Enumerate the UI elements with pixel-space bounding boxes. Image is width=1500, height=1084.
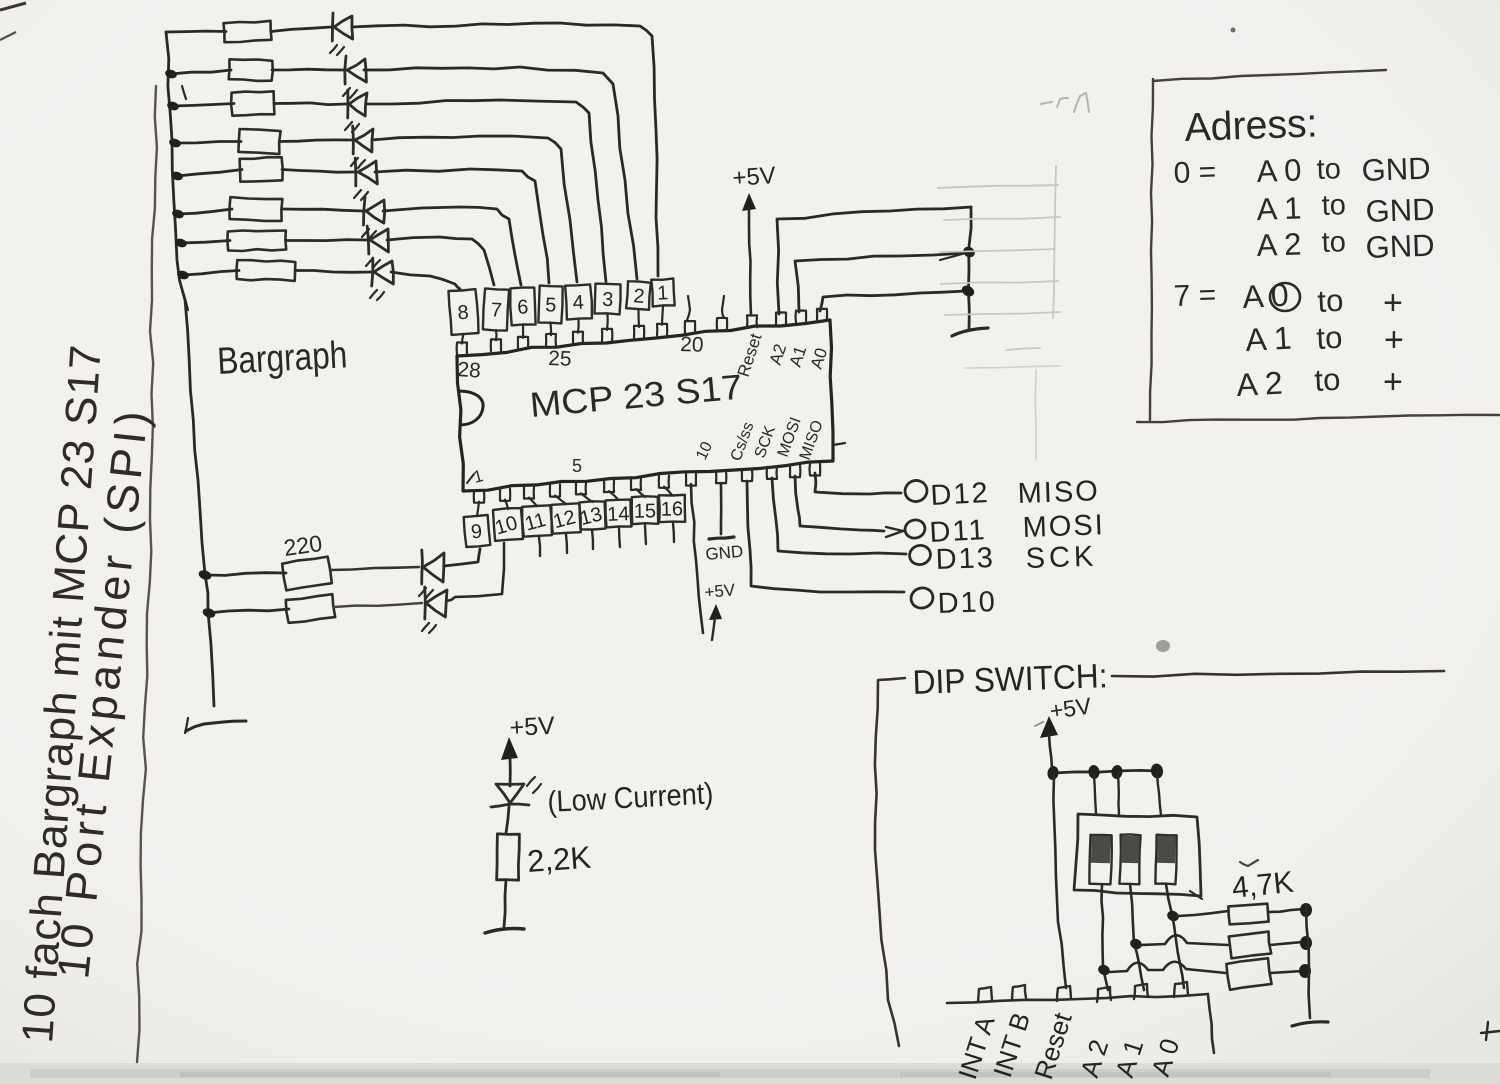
svg-text:4,7K: 4,7K bbox=[1230, 866, 1295, 905]
wire bus to resistor R8 bbox=[183, 271, 239, 276]
svg-text:to: to bbox=[1316, 153, 1341, 186]
IC U1 bottom pin stub 3 bbox=[524, 487, 534, 499]
wire LED D6 to pin box 6 bbox=[383, 207, 521, 285]
svg-text:+: + bbox=[1383, 284, 1403, 322]
wire MOSI to D11 bbox=[795, 476, 884, 531]
tick on bus below node 8 bbox=[184, 295, 188, 310]
header pin stub INT B bbox=[1012, 985, 1026, 1000]
resistor 2.2K bbox=[497, 834, 520, 880]
IC U1 bottom pin stub 2 bbox=[500, 489, 510, 501]
svg-text:+: + bbox=[1383, 363, 1403, 401]
connector circle D12 bbox=[903, 478, 930, 504]
header pin stub A2 bbox=[1097, 987, 1111, 1002]
svg-text:to: to bbox=[1317, 283, 1345, 319]
pin box 5 bbox=[538, 286, 562, 324]
wire bus to resistor R9 bbox=[205, 573, 286, 576]
resistor R9 (220) bbox=[282, 557, 332, 591]
header strip right edge bbox=[1208, 995, 1214, 1053]
svg-text:GND: GND bbox=[1361, 151, 1431, 188]
svg-text:A 1: A 1 bbox=[1244, 320, 1292, 358]
pin box 14 bbox=[606, 500, 632, 528]
svg-text:GND: GND bbox=[705, 542, 744, 564]
junction node on bus row 7 bbox=[174, 237, 188, 248]
wire pin box 4 to chip bbox=[577, 319, 580, 333]
pin box 3 bbox=[595, 284, 621, 315]
svg-text:SCK: SCK bbox=[1025, 541, 1098, 575]
connector circle D11 bbox=[903, 518, 927, 541]
ground symbol right of chip bbox=[952, 328, 988, 336]
IC U1 top pin stub 1 bbox=[457, 343, 467, 355]
svg-text:D11: D11 bbox=[929, 514, 988, 549]
wire bus to resistor R1 bbox=[166, 30, 226, 34]
DIP switch S1 body bbox=[1074, 814, 1201, 896]
wire pin box 7 to chip bbox=[495, 330, 498, 340]
wire LED D4 to pin box 4 bbox=[372, 136, 577, 282]
junction node on bus row 5 bbox=[170, 170, 184, 181]
wire chip to pin box 12 bbox=[555, 496, 566, 505]
LED D5 bbox=[354, 158, 357, 186]
IC U1 top pin stub 11 bbox=[747, 315, 757, 327]
wire MISO to D12 bbox=[815, 473, 901, 494]
stub wire below pin box 16 bbox=[673, 523, 674, 542]
stub wire below pin box 14 bbox=[619, 528, 620, 547]
wire LED D7 to pin box 7 bbox=[387, 237, 494, 285]
IC U1 MCP23S17 body outline bbox=[457, 320, 833, 491]
pigtail wire above stub x690 bbox=[687, 296, 690, 320]
pin box 8 bbox=[449, 289, 479, 335]
svg-text:D10: D10 bbox=[937, 586, 997, 620]
small dot top right bbox=[1231, 28, 1236, 33]
resistor R5 bbox=[240, 157, 283, 182]
DIP switch slot 1 bbox=[1089, 835, 1111, 885]
wire bus to resistor R5 bbox=[177, 170, 242, 177]
junction node on bus row 3 bbox=[166, 100, 180, 111]
wire CS to D10 bbox=[747, 481, 904, 592]
junction node dip bus 4 bbox=[1150, 763, 1164, 780]
LED D3 bbox=[346, 90, 349, 118]
wire LED to resistor 2.2K bbox=[506, 806, 509, 833]
bargraph common bus wire bbox=[166, 32, 214, 706]
pullup row2 wire left bbox=[1141, 935, 1228, 945]
svg-text:2,2K: 2,2K bbox=[526, 840, 592, 879]
pin box 15 bbox=[632, 496, 658, 524]
svg-text:7: 7 bbox=[490, 299, 502, 322]
wire LED D8 to pin box 8 bbox=[391, 272, 460, 289]
wire chip to pin box 16 bbox=[664, 487, 672, 495]
pigtail wire above stub x722 bbox=[722, 296, 724, 318]
resistor R7 bbox=[227, 231, 286, 252]
power arrow +5V dip bbox=[1040, 716, 1058, 738]
svg-text:0 =: 0 = bbox=[1173, 156, 1217, 190]
svg-text:14: 14 bbox=[607, 503, 630, 526]
LED D10 bbox=[423, 587, 426, 619]
gnd bus vertical right of chip bbox=[968, 207, 971, 330]
pin box 9 bbox=[464, 515, 491, 547]
IC U1 bottom pin stub 10 bbox=[716, 471, 726, 483]
wire resistor R4 to LED D4 bbox=[280, 140, 352, 142]
wire pin17 to +5V bbox=[691, 484, 703, 633]
pin box 1 bbox=[651, 278, 674, 306]
junction node row2-switch2 bbox=[1128, 937, 1143, 951]
pin box 4 bbox=[565, 284, 592, 319]
svg-text:to: to bbox=[1316, 320, 1344, 356]
pullup row1 wire right bbox=[1268, 909, 1304, 912]
wire bus to resistor R6 bbox=[178, 209, 232, 214]
LED D9 bbox=[420, 550, 423, 584]
pin box 2 bbox=[626, 281, 651, 310]
junction node dip bus 2 bbox=[1088, 764, 1101, 779]
svg-text:MISO: MISO bbox=[1017, 475, 1100, 510]
power arrow +5V low current bbox=[501, 737, 518, 760]
IC U1 top pin stub 8 bbox=[657, 324, 667, 336]
resistor R10 (220) bbox=[286, 594, 335, 623]
line right of DIP SWITCH label bbox=[1112, 671, 1444, 677]
LED D2 bbox=[345, 56, 346, 84]
power arrow +5V below chip bbox=[709, 604, 722, 620]
svg-text:A 2: A 2 bbox=[1235, 365, 1283, 403]
stub wire below pin box 12 bbox=[566, 534, 567, 553]
svg-text:MOSI: MOSI bbox=[1022, 509, 1105, 544]
svg-text:5: 5 bbox=[572, 456, 582, 476]
pullup row1 wire left bbox=[1178, 911, 1228, 916]
junction node row1-switch3 bbox=[1165, 909, 1180, 923]
wire bus to resistor R7 bbox=[181, 241, 230, 244]
svg-text:20: 20 bbox=[680, 333, 704, 357]
IC U1 bottom pin stub 7 bbox=[631, 478, 641, 490]
wire resistor R5 to LED D5 bbox=[282, 170, 355, 173]
svg-text:to: to bbox=[1321, 226, 1346, 259]
svg-text:1: 1 bbox=[657, 282, 669, 305]
wire chip to pin box 11 bbox=[529, 498, 537, 506]
resistor R4 bbox=[238, 129, 280, 154]
svg-text:220: 220 bbox=[282, 530, 324, 561]
stub wire below pin box 11 bbox=[539, 537, 540, 556]
stub wire below pin box 15 bbox=[645, 525, 646, 544]
junction node row3-bus bbox=[1299, 964, 1311, 978]
svg-text:Adress:: Adress: bbox=[1184, 101, 1318, 150]
wire pin GND down bbox=[720, 484, 723, 534]
svg-text:25: 25 bbox=[548, 347, 572, 371]
wire bus to resistor R10 bbox=[208, 609, 289, 613]
IC U1 top pin stub 4 bbox=[546, 334, 556, 347]
IC U1 bottom pin stub 6 bbox=[604, 480, 614, 492]
svg-text:5: 5 bbox=[545, 294, 557, 316]
mark at right edge bottom bbox=[1486, 1022, 1488, 1040]
ghost +5V marks top right bbox=[1041, 102, 1052, 104]
svg-text:28: 28 bbox=[457, 358, 482, 383]
wire resistor R2 to LED D2 bbox=[272, 68, 344, 72]
svg-text:A 2: A 2 bbox=[1256, 226, 1302, 263]
wire resistor R1 to LED D1 bbox=[271, 27, 331, 32]
wire dip bus to switch pin 1 bbox=[1094, 774, 1096, 813]
junction node bus row 10 bbox=[201, 607, 216, 620]
IC U1 top pin stub 2 bbox=[491, 339, 501, 351]
svg-text:8: 8 bbox=[457, 302, 470, 325]
wire dip bus to switch pin 3 bbox=[1157, 773, 1161, 815]
svg-text:to: to bbox=[1321, 189, 1346, 222]
ground symbol dip bbox=[1292, 1022, 1328, 1026]
connector circle D10 bbox=[909, 585, 935, 610]
IC U1 bottom pin stub 9 bbox=[686, 474, 696, 486]
pin box 12 bbox=[551, 503, 580, 533]
wire resistor R6 to LED D6 bbox=[282, 209, 363, 211]
pullup resistor R12 4.7K bbox=[1229, 932, 1271, 959]
svg-text:15: 15 bbox=[634, 500, 657, 522]
wire bus to resistor R4 bbox=[175, 142, 241, 144]
wire pin box 1 to chip bbox=[662, 306, 663, 325]
junction node on bus row 2 bbox=[164, 68, 178, 79]
arrow head into D11 bbox=[886, 527, 903, 531]
wire switch3 to A0 pin bbox=[1166, 884, 1184, 988]
wire resistor R3 to LED D3 bbox=[274, 103, 346, 105]
connector circle D13 bbox=[907, 543, 932, 567]
junction node dip bus 3 bbox=[1111, 764, 1124, 779]
resistor R2 bbox=[229, 59, 273, 81]
IC U1 top pin stub 6 bbox=[602, 329, 612, 341]
header strip top line bbox=[947, 994, 1208, 1003]
squiggle above 4.7K bbox=[1240, 860, 1258, 866]
IC U1 top pin stub 5 bbox=[573, 332, 583, 344]
wire A2 to gnd bus bbox=[777, 207, 971, 314]
ground symbol below chip (T) bbox=[709, 537, 734, 539]
LED D4 bbox=[351, 126, 354, 154]
wire LED D5 to pin box 5 bbox=[375, 169, 549, 283]
header pin stub Reset bbox=[1057, 986, 1071, 1001]
LED D8 bbox=[372, 258, 373, 286]
wire pin box 5 to chip bbox=[549, 323, 552, 335]
wire SCK to D13 bbox=[772, 478, 906, 554]
svg-text:A 1: A 1 bbox=[1256, 190, 1302, 227]
header pin stub A1 bbox=[1134, 984, 1148, 999]
resistor R1 bbox=[224, 21, 272, 42]
DIP switch slot 2 bbox=[1119, 834, 1140, 884]
header pin stub A0 bbox=[1174, 982, 1188, 997]
junction node dip bus 1 bbox=[1046, 765, 1059, 781]
bracket left of DIP section bbox=[875, 678, 905, 1046]
wire switch1 to A2 pin bbox=[1102, 884, 1109, 990]
wire bus to resistor R2 bbox=[171, 70, 231, 74]
IC U1 bottom pin stub 11 bbox=[742, 469, 753, 481]
IC U1 top pin stub 3 bbox=[518, 337, 528, 349]
pin box 6 bbox=[510, 288, 535, 326]
svg-text:16: 16 bbox=[661, 498, 684, 520]
wire chip to pin box 15 bbox=[636, 489, 645, 497]
svg-text:A 0: A 0 bbox=[1256, 152, 1302, 189]
svg-text:4: 4 bbox=[572, 292, 584, 315]
svg-text:+: + bbox=[1384, 321, 1404, 359]
pullup resistor R13 4.7K bbox=[1226, 958, 1271, 990]
pullup resistor R11 4.7K bbox=[1228, 904, 1268, 925]
svg-text:2: 2 bbox=[633, 285, 646, 308]
stub wire below pin box 13 bbox=[592, 530, 593, 549]
junction node A0-gndbus bbox=[960, 283, 976, 298]
IC U1 notch bbox=[458, 391, 483, 425]
svg-text:7 =: 7 = bbox=[1173, 279, 1217, 313]
wire resistor 2.2K to ground bbox=[504, 880, 506, 927]
tick on bus below node 2 bbox=[182, 86, 186, 99]
wire dip bus to switch pin 2 bbox=[1118, 773, 1119, 814]
IC U1 bottom pin stub 1 bbox=[474, 491, 485, 503]
wire LED D1 to pin box 1 bbox=[352, 23, 658, 276]
wire A0 to gnd bus bbox=[820, 291, 966, 311]
wire resistor R8 to LED D8 bbox=[295, 271, 371, 273]
svg-text:9: 9 bbox=[470, 521, 483, 544]
IC U1 top pin stub 7 bbox=[634, 326, 644, 338]
wire LED D9 to pin box 9 bbox=[444, 549, 480, 566]
wire switch2 to A1 pin bbox=[1130, 884, 1144, 990]
svg-text:to: to bbox=[1314, 362, 1342, 398]
paper bottom scan shadow band bbox=[0, 1063, 1500, 1084]
pullup gnd bus vertical bbox=[1306, 905, 1310, 1018]
junction node on bus row 6 bbox=[171, 208, 185, 219]
power arrow +5V reset bbox=[742, 193, 756, 211]
svg-text:6: 6 bbox=[517, 296, 529, 318]
svg-text:+5V: +5V bbox=[732, 162, 777, 192]
arrow tick on A1 wire bbox=[940, 253, 966, 260]
svg-text:GND: GND bbox=[1365, 192, 1435, 229]
svg-text:Bargraph: Bargraph bbox=[216, 334, 348, 383]
LED D6 bbox=[364, 197, 366, 225]
IC U1 top pin stub 14 bbox=[817, 309, 827, 321]
svg-text:GND: GND bbox=[1365, 228, 1435, 265]
wire pin box 8 to chip bbox=[462, 334, 464, 344]
header pin stub INT A bbox=[978, 987, 992, 1002]
dip +5V bus wire bbox=[1053, 770, 1160, 773]
IC U1 top pin stub 13 bbox=[796, 311, 807, 323]
wire resistor R7 to LED D7 bbox=[286, 240, 367, 241]
ground symbol low current leg bbox=[485, 929, 524, 934]
svg-text:3: 3 bbox=[602, 289, 614, 311]
svg-text:+5V: +5V bbox=[509, 712, 556, 742]
pullup row2 wire right bbox=[1270, 942, 1303, 945]
IC U1 top pin stub 10 bbox=[717, 318, 727, 330]
top-left corner page marks bbox=[0, 3, 26, 10]
IC U1 bottom pin stub 13 bbox=[790, 465, 800, 477]
junction node row1-bus bbox=[1300, 903, 1312, 917]
IC U1 bottom pin stub 5 bbox=[576, 482, 586, 494]
pin box 11 bbox=[522, 505, 552, 536]
IC U1 bottom pin stub 4 bbox=[550, 485, 560, 497]
junction node row3-switch1 bbox=[1096, 963, 1111, 977]
LED D11 low current (down) bbox=[496, 784, 524, 803]
wire A1 to gnd bus bbox=[795, 253, 967, 312]
wire pin box 2 to chip bbox=[637, 309, 640, 327]
pin box 16 bbox=[659, 495, 685, 522]
wire resistor R10 to LED D10 bbox=[334, 603, 422, 607]
wire chip to pin box 13 bbox=[581, 493, 593, 502]
DIP switch slot 3 bbox=[1155, 835, 1176, 885]
pullup row3 wire right bbox=[1270, 971, 1302, 973]
IC U1 bottom pin stub 8 bbox=[659, 476, 669, 488]
left margin separator line bbox=[137, 86, 157, 1062]
wire resistor R9 to LED D9 bbox=[330, 567, 419, 570]
wire LED D10 to pin box 10 bbox=[447, 543, 504, 601]
IC U1 bottom pin stub 14 bbox=[810, 464, 821, 476]
svg-text:+5V: +5V bbox=[704, 580, 737, 602]
resistor R3 bbox=[231, 91, 274, 115]
ground at bargraph bus bottom bbox=[186, 721, 246, 731]
wire chip to pin box 14 bbox=[609, 491, 619, 500]
LED D7 bbox=[367, 226, 369, 254]
wire chip to pin box 10 bbox=[505, 500, 508, 509]
junction node on bus row 8 bbox=[176, 269, 190, 280]
junction node A1-gndbus bbox=[961, 245, 976, 260]
gray dot left of 4.7K bbox=[1156, 640, 1170, 652]
ghost erased lines near gnd bus bbox=[938, 185, 1058, 188]
LED D1 bbox=[331, 13, 335, 41]
adress box outline bbox=[1153, 70, 1386, 81]
pullup row3 wire left bbox=[1110, 962, 1226, 973]
wire dip bus to Reset pin (long) bbox=[1053, 775, 1066, 988]
resistor R6 bbox=[230, 197, 283, 221]
resistor R8 bbox=[237, 260, 296, 281]
junction node bus row 9 bbox=[197, 569, 212, 582]
tick right of MISO pin bbox=[833, 443, 845, 445]
wire bus to resistor R3 bbox=[173, 104, 234, 107]
wire chip to pin box 9 bbox=[477, 502, 479, 516]
wire LED D2 to pin box 2 bbox=[364, 67, 637, 279]
wire pin box 3 to chip bbox=[606, 314, 609, 330]
svg-text:D12: D12 bbox=[930, 477, 991, 512]
wire LED D3 to pin box 3 bbox=[366, 100, 606, 282]
IC U1 top pin stub 9 bbox=[685, 321, 695, 333]
pin box 7 bbox=[483, 288, 509, 330]
junction node on bus row 4 bbox=[168, 137, 182, 148]
pin box 13 bbox=[580, 501, 606, 529]
wire pin box 6 to chip bbox=[522, 325, 524, 338]
IC U1 bottom pin stub 12 bbox=[767, 467, 777, 479]
pin box 10 bbox=[493, 508, 523, 541]
junction node row2-bus bbox=[1300, 936, 1312, 950]
IC U1 top pin stub 12 bbox=[776, 312, 786, 324]
